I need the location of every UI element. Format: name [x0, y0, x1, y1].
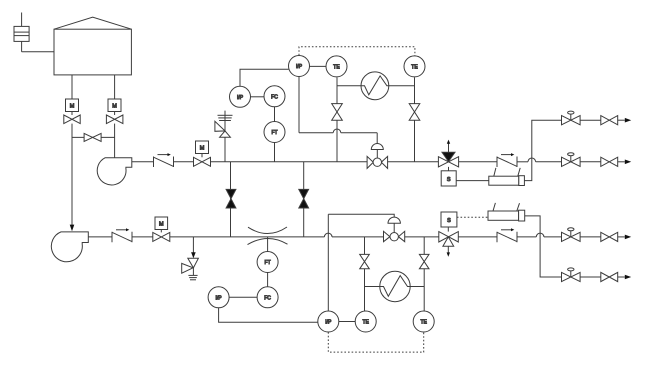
valve on TE2 drop [409, 104, 420, 121]
svg-text:M: M [112, 103, 117, 109]
wire TE2 drop [414, 77, 416, 161]
instrument FT2 [257, 252, 278, 273]
venturi flow element [248, 227, 288, 252]
heat exchanger HX2 [365, 271, 425, 301]
svg-text:FT: FT [271, 130, 277, 136]
wire IP2 to TE3 [339, 321, 355, 323]
solenoid box S2 [441, 212, 457, 227]
wire cross connect [72, 136, 115, 138]
globe valve GV1 top branch [562, 111, 581, 125]
relief valve RV1 [215, 111, 233, 162]
instrument TE3 [355, 311, 376, 332]
wire outlet arrow main line [618, 161, 625, 163]
wire silencer riser to top branch [524, 120, 561, 180]
wire with hop over riser [517, 158, 562, 162]
instrument I/P (IP3) [289, 56, 310, 77]
check valve CV4 [497, 228, 517, 242]
svg-text:TE: TE [333, 64, 340, 70]
closed valve (filled) on bypass 2 [299, 189, 309, 208]
valve top branch [601, 116, 618, 125]
pump P2 [51, 232, 88, 262]
wire S1 to silencer [456, 180, 489, 182]
svg-text:M: M [159, 221, 164, 227]
instrument I/P (IP4) [208, 287, 229, 308]
pump P1 [97, 158, 132, 185]
blowdown valve RV2 [182, 237, 199, 280]
globe valve GV3 bottom main [562, 228, 581, 242]
valve V1 cross-connect [84, 133, 101, 141]
instrument I/P (IP2) [318, 311, 339, 332]
wire [580, 119, 601, 121]
wire IP4 to FC2 [229, 296, 257, 298]
valve on TE3 drop [360, 254, 370, 268]
wire left drop to pump P2 [71, 124, 73, 225]
wire signal to control valve CTV2 [328, 214, 394, 217]
valve main line [601, 157, 618, 166]
svg-text:M: M [70, 103, 75, 109]
wire right drop to pump P1 [114, 124, 116, 158]
instrument FC1 [264, 86, 285, 107]
wire tank outlet right [114, 75, 116, 99]
svg-text:S: S [447, 177, 451, 183]
instrument TE4 [413, 311, 434, 332]
silencer SIL2 [488, 203, 525, 221]
wire after XV2 [458, 236, 497, 238]
svg-text:TE: TE [421, 320, 428, 326]
check valve CV3 [497, 153, 517, 167]
valve on TE4 drop [419, 254, 429, 268]
valve bottom branch [601, 272, 618, 281]
wire IP1 up link [240, 69, 289, 86]
svg-text:FC: FC [271, 94, 278, 100]
wire TE1 drop [336, 77, 338, 161]
valve bottom main [601, 232, 618, 241]
instrument TE (top left) [326, 56, 347, 77]
svg-text:FC: FC [264, 295, 271, 301]
heat exchanger HX1 [337, 72, 415, 100]
wire bypass 2 [303, 162, 305, 237]
instrument TE (top right) [404, 56, 425, 77]
wire IP3 to TE1 [310, 65, 327, 67]
tank T1 [54, 17, 131, 75]
svg-text:I/P: I/P [325, 320, 332, 326]
svg-text:I/P: I/P [296, 64, 303, 70]
wire pump P1 discharge [132, 161, 154, 163]
motor valve MV3 [194, 141, 211, 166]
three-way valve XV1 [438, 140, 458, 171]
control valve CTV2 [384, 217, 405, 242]
wire pump P2 discharge [88, 236, 112, 238]
closed valve (filled) on bypass 1 [226, 189, 236, 208]
wire FT1 tap [274, 143, 276, 162]
silencer SIL1 [489, 168, 525, 186]
wire with hop over silencer drop [517, 233, 562, 237]
wire TE4 drop [423, 237, 425, 311]
arrowhead into pump P2 [70, 225, 75, 232]
three-way valve XV2 [439, 227, 459, 257]
globe valve GV4 bottom branch [562, 268, 581, 282]
wire top main pipe [211, 161, 368, 163]
wire bottom main pipe [170, 233, 439, 237]
wire [580, 276, 601, 278]
solenoid box S1 [441, 171, 456, 186]
inline filter F1 top-left [14, 13, 29, 52]
wire [132, 236, 153, 238]
dashed signal link top [299, 47, 415, 56]
wire tank outlet left [71, 75, 73, 99]
wire FT2 link [267, 273, 269, 287]
motor valve MV4 [153, 217, 170, 241]
wire [580, 161, 601, 163]
svg-text:I/P: I/P [237, 95, 244, 101]
instrument FC2 [257, 287, 278, 308]
motor valve MV2 [106, 99, 123, 124]
svg-text:FT: FT [265, 260, 271, 266]
instrument FT1 [264, 122, 285, 143]
instrument I/P (IP1) [230, 86, 251, 107]
wire signal to control valve with hop [299, 129, 377, 144]
wire outlet arrow bottom branch [618, 276, 625, 278]
wire IP3 signal drop [298, 77, 300, 133]
motor valve MV1 [64, 99, 80, 124]
svg-text:TE: TE [363, 320, 370, 326]
check valve CV1 [154, 153, 174, 167]
check valve CV2 [112, 228, 132, 242]
svg-text:S: S [447, 218, 451, 224]
svg-text:TE: TE [411, 64, 418, 70]
wire outlet arrow bottom main [618, 236, 625, 238]
wire after XV1 [459, 161, 497, 163]
svg-text:M: M [200, 145, 205, 151]
dashed signal link bottom [328, 332, 423, 352]
wire TE3 drop [364, 237, 366, 311]
globe valve GV2 main line [562, 153, 581, 167]
wire bypass 1 [230, 162, 232, 237]
wire [388, 161, 439, 163]
wire IP4 to IP2 [219, 308, 319, 323]
wire FC1 to FT1 [274, 107, 276, 122]
valve on TE1 drop [332, 104, 343, 121]
wire silencer drop to bottom branch [525, 216, 562, 277]
wire IP2 signal riser [327, 214, 329, 311]
wire [174, 161, 194, 163]
dotted wire S2 to silencer [457, 216, 488, 218]
wire [580, 236, 601, 238]
wire outlet arrow top branch [618, 119, 625, 121]
svg-text:I/P: I/P [216, 295, 223, 301]
wire IP1 to FC1 [251, 96, 265, 98]
control valve CTV1 [367, 144, 388, 169]
wire filter to tank [22, 51, 54, 53]
